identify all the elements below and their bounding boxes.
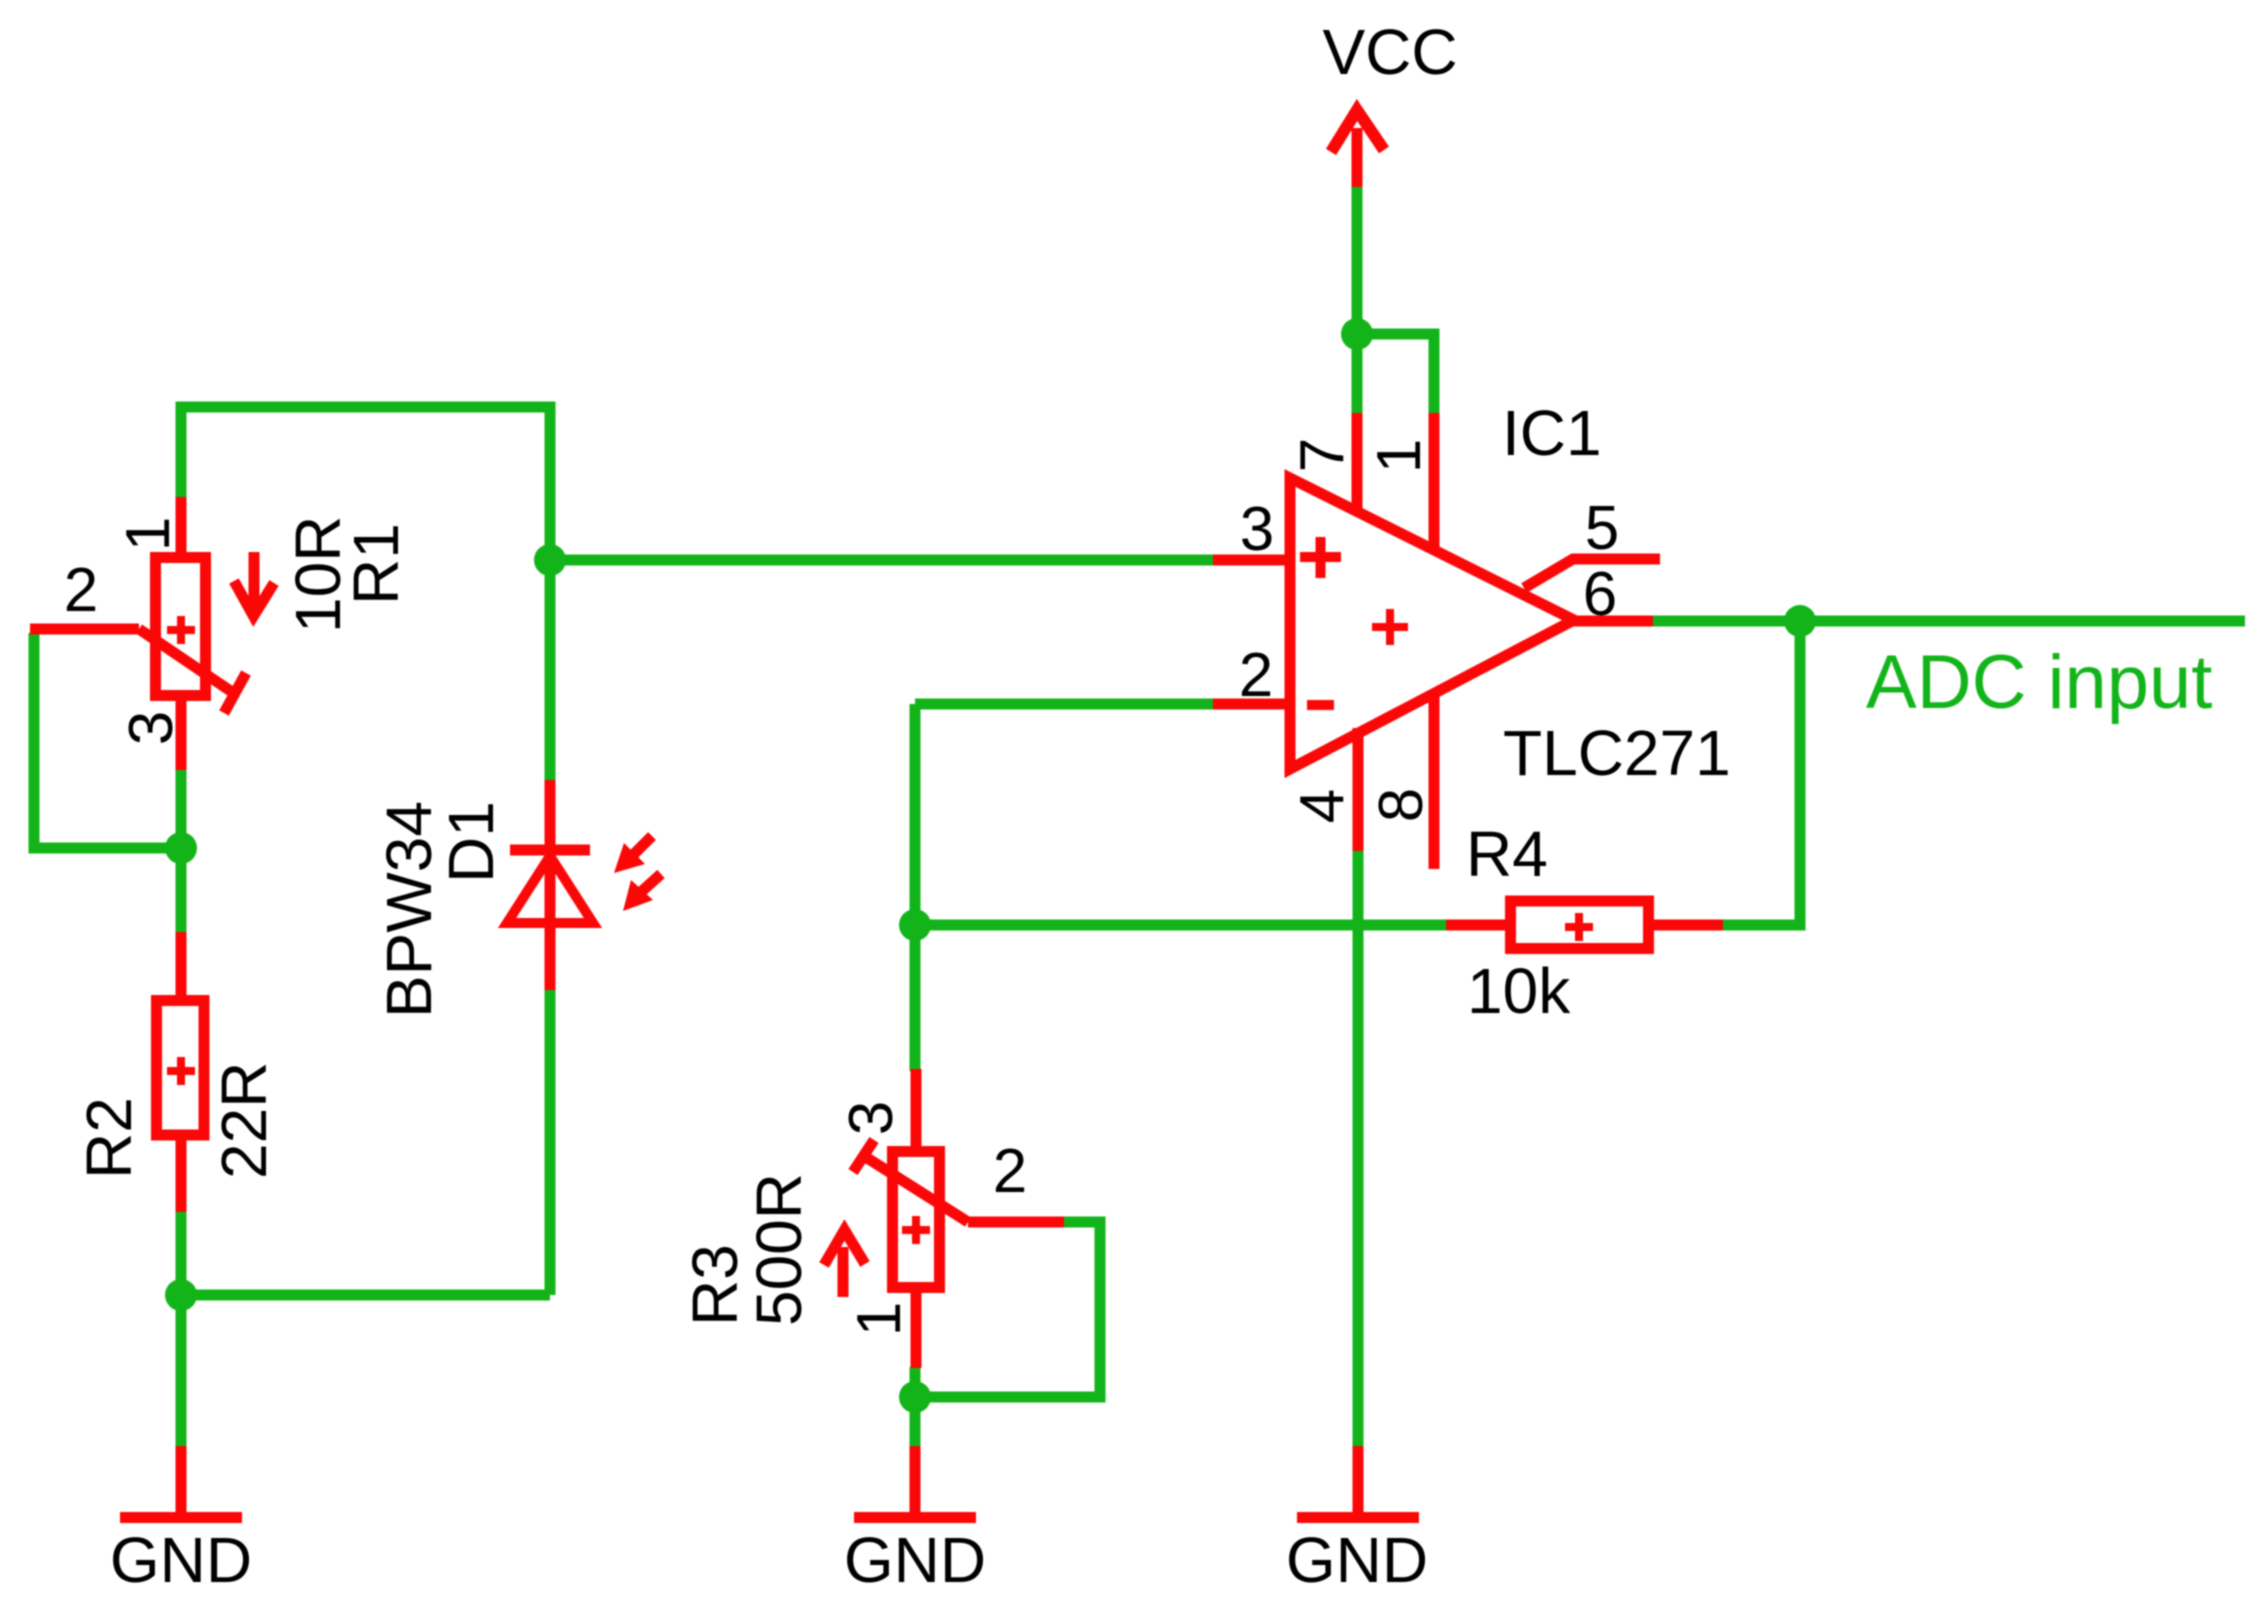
wire R3 pin1 to GND node [910,1367,921,1446]
ground symbol right [1297,1446,1419,1518]
svg-text:3: 3 [1240,495,1274,564]
node VCC junction [1341,318,1373,350]
svg-text:R4: R4 [1466,818,1548,890]
svg-text:4: 4 [1288,789,1357,823]
ground symbol middle [854,1446,976,1518]
svg-text:1: 1 [1365,439,1434,473]
svg-text:2: 2 [993,1137,1027,1206]
wire R1 pin2 loop left [34,633,181,848]
potentiometer R1 [30,497,274,770]
wire D1 bottom column [545,989,556,1295]
svg-text:GND: GND [844,1524,986,1596]
VCC supply symbol [1331,110,1384,187]
svg-text:500R: 500R [743,1173,815,1326]
svg-text:TLC271: TLC271 [1503,717,1731,789]
node R3 bottom junction [899,1381,931,1413]
svg-text:R3: R3 [679,1244,751,1326]
wire op-amp pin4 down to GND stem [1353,851,1364,1446]
wire node A to op-amp pin 3 [545,555,1213,566]
wire VCC down to pin 7 [1352,186,1363,413]
svg-text:6: 6 [1583,560,1617,629]
wire R3 pin2 loop right [915,1222,1100,1397]
svg-text:1: 1 [114,517,183,551]
wire R1 pin3 to R2 top [176,769,187,932]
svg-text:10k: 10k [1467,955,1571,1027]
wire inverting node horizontal to pin 2 [915,699,1213,710]
photodiode D1 [507,780,661,990]
svg-text:R1: R1 [340,523,412,605]
wire inverting node vertical to R3 pin3 [910,704,921,1071]
node inverting input junction [899,909,931,941]
ground symbol left [120,1446,242,1518]
node B junction R2/D1 [165,1279,197,1311]
wire R2 bottom to GND stem [176,1211,187,1446]
op-amp IC1 TLC271 [1213,413,1660,869]
wire output ADC input net [1653,616,2245,627]
resistor R4 [1446,901,1723,949]
svg-text:IC1: IC1 [1502,397,1602,469]
resistor R2 [157,932,205,1212]
svg-text:2: 2 [1239,641,1273,710]
svg-text:1: 1 [845,1302,914,1336]
node output junction [1784,605,1816,637]
svg-text:7: 7 [1288,438,1357,472]
svg-text:GND: GND [1286,1524,1428,1596]
svg-text:3: 3 [837,1101,906,1135]
D1 light arrow heads [614,843,645,873]
svg-text:D1: D1 [435,801,507,883]
svg-text:2: 2 [64,556,98,625]
svg-text:VCC: VCC [1322,16,1457,88]
svg-text:GND: GND [110,1524,252,1596]
svg-text:R2: R2 [73,1097,145,1179]
svg-text:5: 5 [1585,494,1619,563]
node R1 pin2/pin3 junction [165,832,197,864]
potentiometer R3 [824,1069,1064,1368]
wire R4 right feedback up to output [1723,621,1800,925]
node A junction [534,544,566,576]
wire inverting node to R4 left [915,920,1446,931]
svg-text:3: 3 [117,711,186,745]
wire VCC node to pin 1 [1357,334,1434,413]
svg-text:22R: 22R [208,1062,280,1179]
svg-text:ADC input: ADC input [1866,640,2212,725]
wire R1 pin1 up, across top, down to node A and D1 anode column [181,407,550,782]
svg-text:8: 8 [1367,788,1436,822]
wire node B to D1 cathode bottom [181,1290,550,1301]
